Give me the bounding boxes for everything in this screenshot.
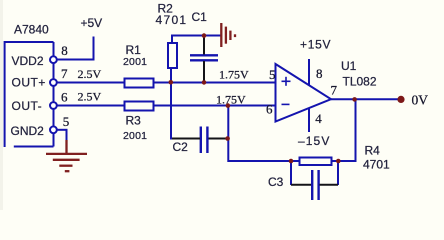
- svg-text:5: 5: [63, 114, 70, 129]
- svg-text:2.5V: 2.5V: [78, 90, 102, 104]
- svg-text:C2: C2: [173, 140, 189, 154]
- svg-text:A7840: A7840: [14, 23, 49, 37]
- svg-text:VDD2: VDD2: [12, 54, 44, 68]
- svg-text:+15V: +15V: [300, 38, 331, 52]
- svg-text:R4: R4: [365, 144, 381, 158]
- svg-text:2.5V: 2.5V: [78, 67, 102, 81]
- svg-text:2001: 2001: [123, 56, 147, 68]
- svg-text:C3: C3: [268, 175, 284, 189]
- svg-text:8: 8: [61, 43, 68, 58]
- svg-text:1.75V: 1.75V: [219, 68, 249, 82]
- svg-text:7: 7: [331, 82, 338, 97]
- svg-text:2001: 2001: [123, 130, 147, 142]
- svg-text:OUT-: OUT-: [12, 99, 43, 113]
- svg-text:1.75V: 1.75V: [216, 93, 246, 107]
- svg-text:–15V: –15V: [298, 134, 330, 148]
- svg-text:TL082: TL082: [343, 74, 377, 88]
- svg-text:7: 7: [61, 66, 68, 81]
- svg-text:5: 5: [269, 67, 276, 82]
- svg-text:C1: C1: [192, 10, 208, 24]
- svg-text:R3: R3: [126, 114, 142, 128]
- svg-text:6: 6: [61, 90, 68, 105]
- svg-text:GND2: GND2: [11, 124, 45, 138]
- svg-text:8: 8: [316, 66, 323, 81]
- svg-text:+5V: +5V: [81, 16, 103, 30]
- svg-text:4701: 4701: [156, 13, 188, 27]
- svg-text:R1: R1: [126, 43, 142, 57]
- svg-text:4: 4: [315, 111, 322, 126]
- svg-text:0V: 0V: [412, 93, 429, 108]
- svg-text:6: 6: [266, 102, 273, 117]
- svg-text:U1: U1: [341, 59, 357, 73]
- svg-text:OUT+: OUT+: [12, 75, 46, 89]
- svg-text:4701: 4701: [363, 158, 390, 172]
